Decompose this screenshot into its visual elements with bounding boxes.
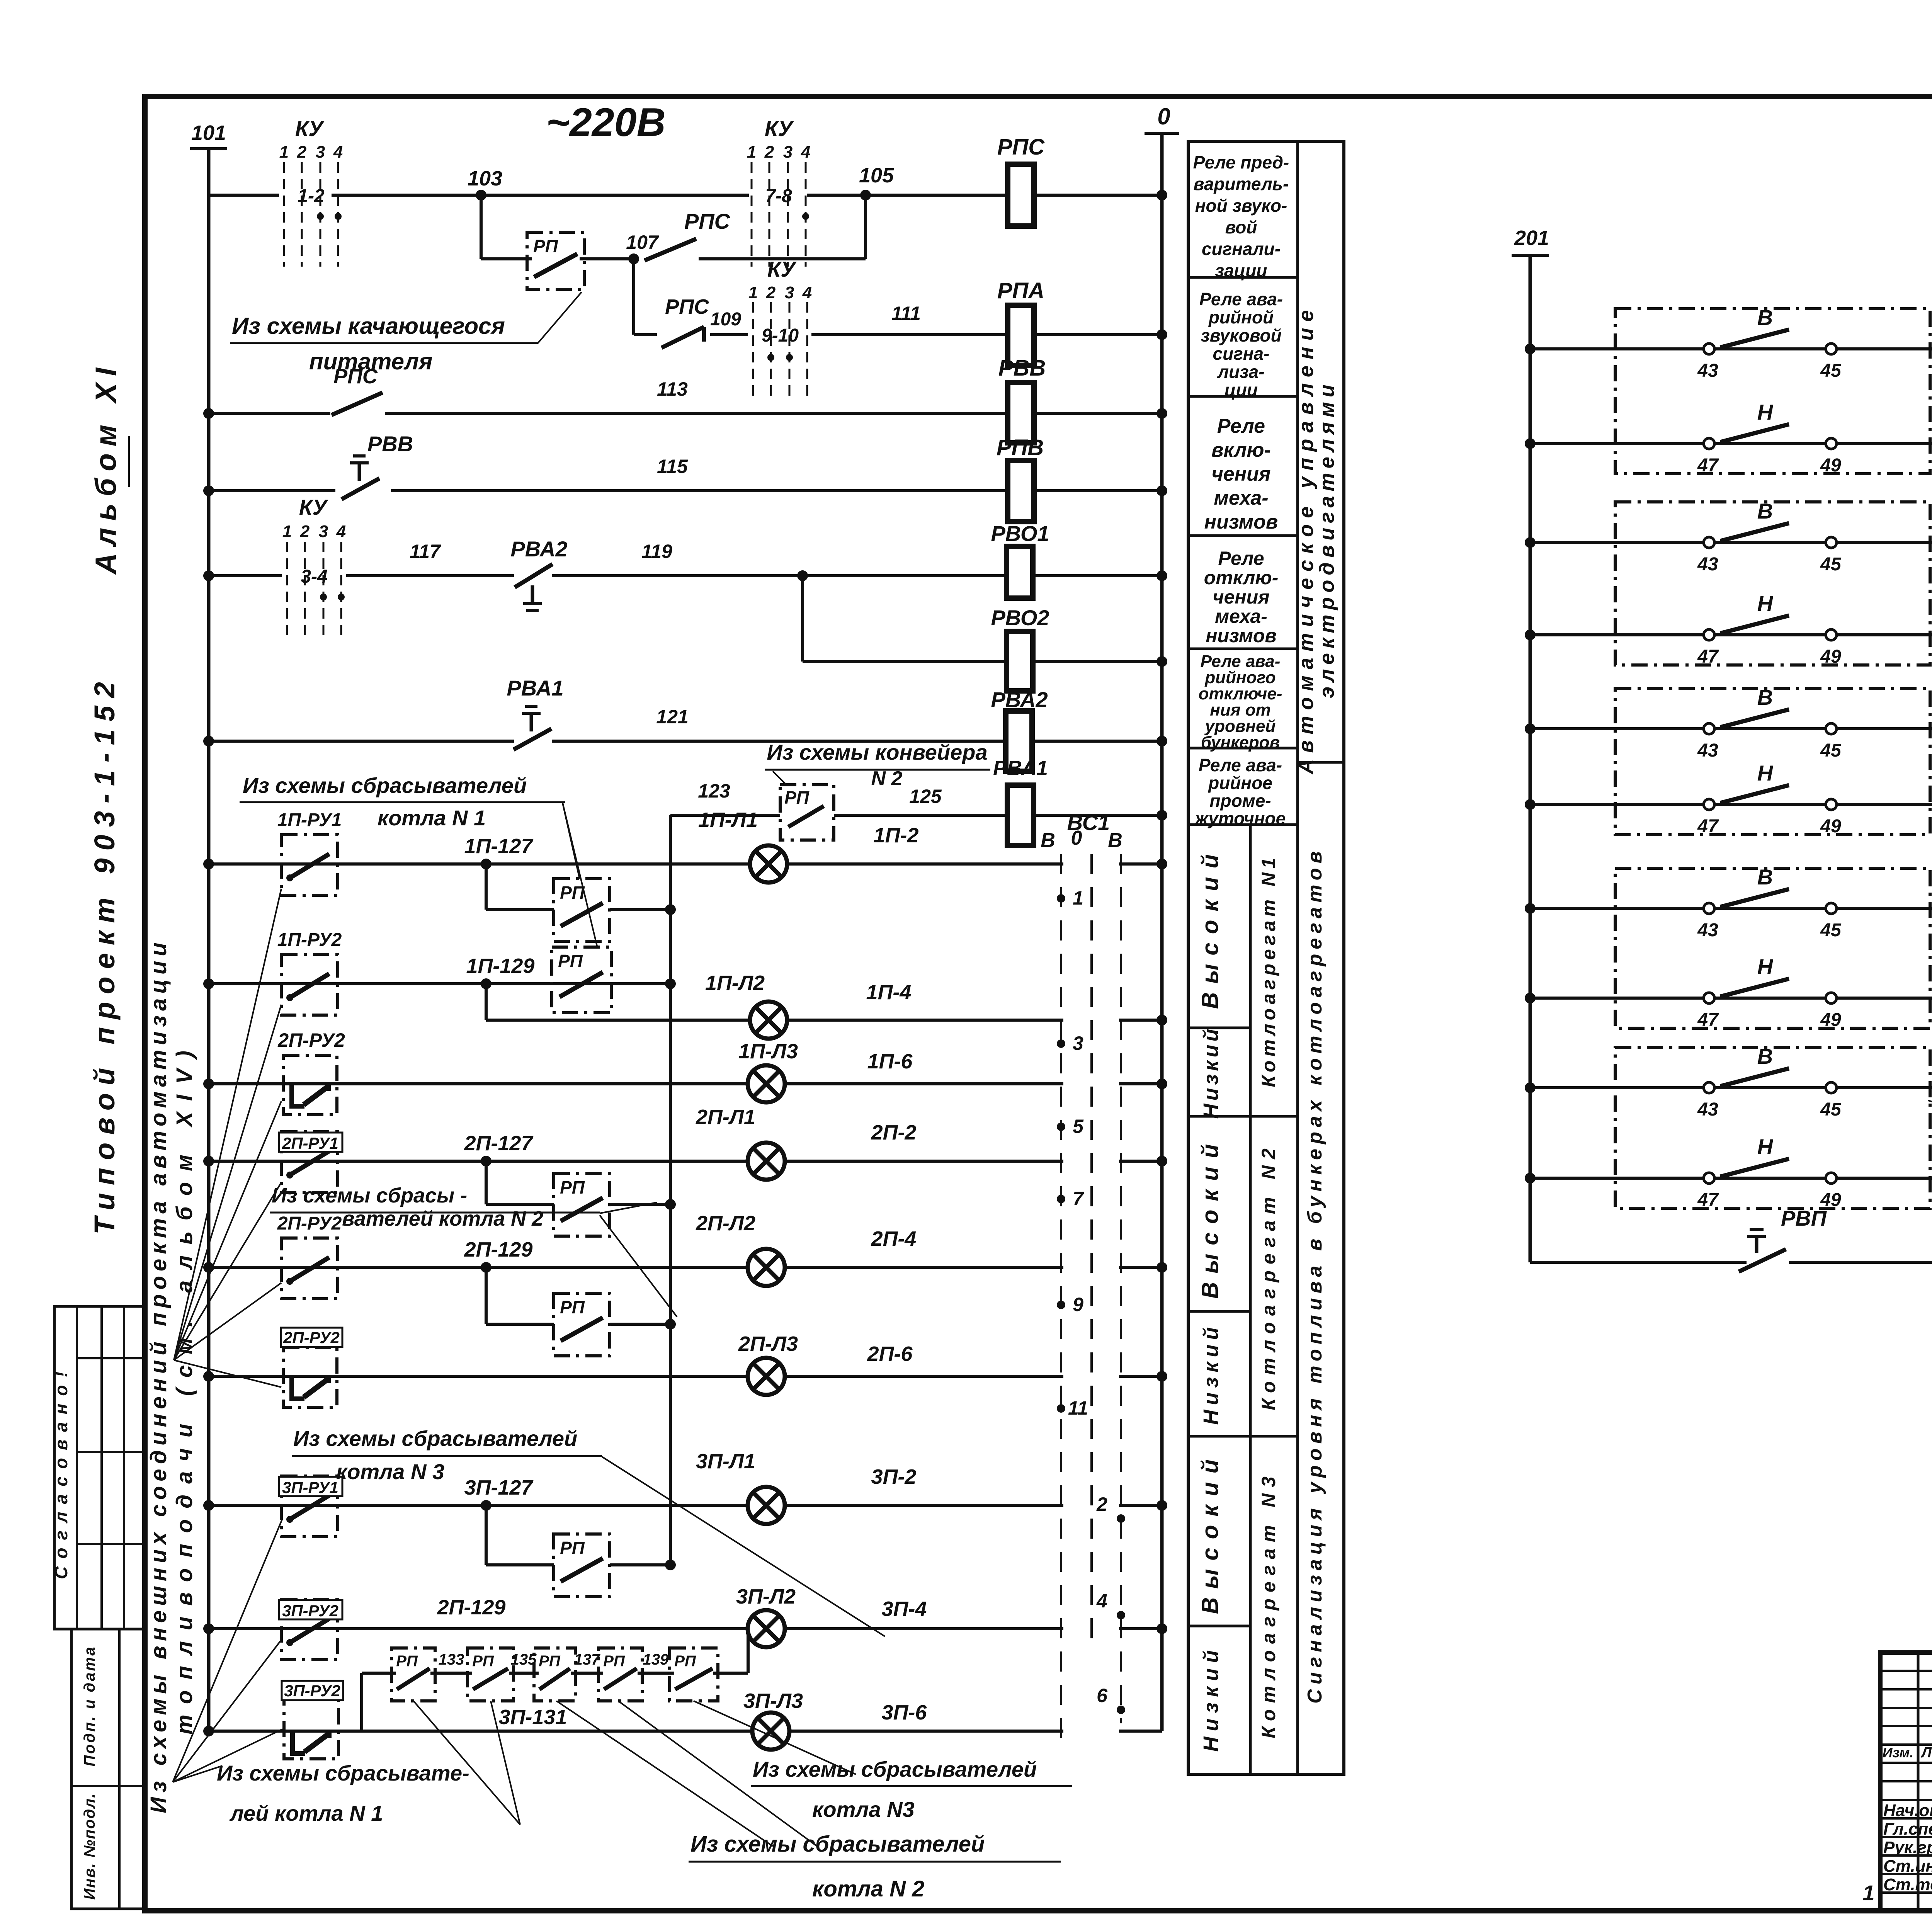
svg-text:РВП: РВП	[1781, 1206, 1827, 1230]
svg-text:3: 3	[316, 143, 325, 162]
svg-text:Высокий: Высокий	[1197, 846, 1223, 1009]
svg-text:РП: РП	[674, 1653, 696, 1670]
svg-text:43: 43	[1697, 740, 1718, 761]
svg-text:45: 45	[1820, 740, 1842, 761]
svg-text:47: 47	[1697, 646, 1719, 667]
svg-text:РПС: РПС	[997, 134, 1045, 160]
svg-text:11: 11	[1068, 1397, 1088, 1419]
svg-text:РВВ: РВВ	[367, 432, 413, 456]
svg-text:Из схемы сбрасывате-: Из схемы сбрасывате-	[217, 1761, 469, 1785]
svg-text:Низкий: Низкий	[1199, 1645, 1223, 1752]
svg-text:сигна-: сигна-	[1213, 344, 1270, 364]
svg-text:Ст.техн.: Ст.техн.	[1883, 1875, 1932, 1894]
svg-text:3П-2: 3П-2	[871, 1465, 917, 1488]
svg-text:Лист: Лист	[1920, 1745, 1932, 1761]
svg-text:Из схемы сбрасы -: Из схемы сбрасы -	[272, 1184, 467, 1207]
svg-text:3П-РУ2: 3П-РУ2	[284, 1682, 340, 1700]
svg-text:2П-Л1: 2П-Л1	[696, 1105, 755, 1129]
svg-text:4: 4	[801, 143, 810, 162]
svg-text:1П-Л1: 1П-Л1	[698, 808, 758, 832]
svg-text:Н: Н	[1757, 400, 1774, 424]
svg-text:В: В	[1757, 305, 1773, 330]
svg-text:РВО1: РВО1	[991, 521, 1049, 546]
svg-text:1: 1	[747, 143, 756, 162]
svg-text:1П-127: 1П-127	[464, 835, 534, 858]
svg-text:2: 2	[766, 283, 776, 302]
svg-text:ции: ции	[1225, 380, 1258, 400]
svg-text:Н: Н	[1757, 1134, 1774, 1159]
svg-text:2П-127: 2П-127	[464, 1132, 534, 1155]
svg-text:бункеров: бункеров	[1201, 733, 1280, 752]
svg-text:Котлоагрегат N3: Котлоагрегат N3	[1258, 1470, 1279, 1738]
svg-text:43: 43	[1697, 1099, 1718, 1120]
svg-text:топливоподачи (см. альбом XIV): топливоподачи (см. альбом XIV)	[172, 1040, 197, 1735]
svg-text:вой: вой	[1225, 217, 1257, 237]
svg-text:3: 3	[319, 522, 328, 541]
svg-text:сигнали-: сигнали-	[1202, 239, 1281, 259]
svg-text:7-8: 7-8	[765, 186, 792, 206]
svg-text:Сигнализация уровня топлива в: Сигнализация уровня топлива в бункерах к…	[1304, 847, 1326, 1704]
svg-text:49: 49	[1820, 455, 1841, 476]
svg-text:РП: РП	[560, 1177, 585, 1197]
svg-text:107: 107	[626, 231, 659, 253]
svg-text:3П-131: 3П-131	[499, 1706, 567, 1729]
svg-text:жуточное: жуточное	[1194, 808, 1286, 828]
svg-text:вклю-: вклю-	[1211, 439, 1271, 461]
svg-text:2П-Л3: 2П-Л3	[738, 1332, 798, 1355]
svg-text:2: 2	[297, 143, 307, 162]
svg-text:3П-РУ1: 3П-РУ1	[282, 1478, 338, 1497]
svg-text:49: 49	[1820, 816, 1841, 837]
svg-text:Ст.инж.: Ст.инж.	[1883, 1857, 1932, 1876]
svg-text:1: 1	[279, 143, 289, 162]
svg-text:3: 3	[783, 143, 793, 162]
svg-text:Из схемы сбрасывателей: Из схемы сбрасывателей	[753, 1757, 1037, 1781]
svg-text:В: В	[1757, 865, 1773, 889]
svg-text:Реле ава-: Реле ава-	[1199, 289, 1283, 309]
svg-text:7: 7	[1073, 1188, 1084, 1209]
svg-text:135: 135	[511, 1651, 537, 1668]
svg-text:РП: РП	[533, 236, 558, 256]
svg-text:1П-4: 1П-4	[866, 981, 912, 1004]
svg-text:РП: РП	[396, 1653, 418, 1670]
svg-text:варитель-: варитель-	[1194, 174, 1289, 194]
svg-text:45: 45	[1820, 1099, 1842, 1120]
svg-text:139: 139	[643, 1651, 669, 1668]
svg-text:121: 121	[656, 706, 688, 728]
svg-text:КУ: КУ	[295, 116, 325, 141]
svg-text:котла N 2: котла N 2	[812, 1876, 924, 1901]
svg-text:1П-129: 1П-129	[466, 954, 535, 978]
svg-text:1П-Л3: 1П-Л3	[738, 1040, 798, 1063]
svg-text:Рук.гр.: Рук.гр.	[1883, 1838, 1932, 1857]
svg-text:РП: РП	[558, 951, 583, 971]
svg-text:3-4: 3-4	[301, 566, 327, 587]
svg-text:В: В	[1757, 685, 1773, 709]
svg-text:2П-129: 2П-129	[464, 1238, 533, 1261]
svg-text:3П-Л2: 3П-Л2	[736, 1585, 796, 1608]
svg-text:47: 47	[1697, 816, 1719, 837]
svg-text:чения: чения	[1213, 586, 1269, 608]
svg-text:Инв. №подл.: Инв. №подл.	[81, 1793, 98, 1900]
svg-text:РВА2: РВА2	[991, 687, 1048, 712]
svg-text:137: 137	[574, 1651, 600, 1668]
svg-text:электродвигателями: электродвигателями	[1315, 380, 1338, 698]
svg-text:РП: РП	[784, 787, 810, 808]
svg-text:проме-: проме-	[1209, 791, 1271, 811]
svg-text:3: 3	[785, 283, 794, 302]
svg-text:2П-129: 2П-129	[437, 1596, 506, 1619]
svg-text:109: 109	[710, 309, 741, 330]
svg-text:105: 105	[859, 164, 894, 187]
svg-text:Высокий: Высокий	[1197, 1451, 1223, 1614]
svg-text:3П-Л1: 3П-Л1	[696, 1450, 755, 1473]
svg-text:3П-4: 3П-4	[882, 1597, 927, 1621]
svg-text:9-10: 9-10	[762, 325, 799, 346]
svg-text:Из схемы конвейера: Из схемы конвейера	[767, 740, 987, 764]
svg-text:1: 1	[748, 283, 758, 302]
svg-text:N 2: N 2	[871, 767, 903, 790]
svg-text:КУ: КУ	[765, 116, 794, 141]
svg-text:123: 123	[698, 780, 730, 802]
svg-text:РПС: РПС	[665, 295, 709, 318]
svg-text:2П-РУ1: 2П-РУ1	[282, 1134, 338, 1152]
svg-text:Из схемы качающегося: Из схемы качающегося	[232, 313, 505, 339]
svg-text:1: 1	[282, 522, 292, 541]
svg-text:Реле: Реле	[1217, 415, 1265, 437]
svg-text:меха-: меха-	[1214, 487, 1268, 509]
svg-text:2П-РУ2: 2П-РУ2	[277, 1029, 345, 1051]
svg-text:РВА1: РВА1	[993, 757, 1048, 780]
svg-text:зации: зации	[1215, 260, 1267, 281]
svg-text:Подп. и дата: Подп. и дата	[81, 1646, 98, 1767]
svg-text:меха-: меха-	[1215, 605, 1267, 627]
svg-text:4: 4	[333, 143, 343, 162]
svg-text:отклю-: отклю-	[1204, 567, 1279, 588]
svg-text:125: 125	[909, 786, 942, 807]
svg-text:3П-РУ2: 3П-РУ2	[282, 1602, 338, 1620]
svg-text:Высокий: Высокий	[1197, 1136, 1223, 1299]
svg-text:1П-6: 1П-6	[867, 1050, 913, 1073]
svg-text:3П-127: 3П-127	[464, 1476, 534, 1499]
svg-text:В: В	[1757, 499, 1773, 523]
svg-text:113: 113	[657, 378, 688, 400]
svg-text:низмов: низмов	[1206, 625, 1276, 646]
svg-text:Котлоагрегат N2: Котлоагрегат N2	[1258, 1142, 1279, 1410]
svg-text:Котлоагрегат N1: Котлоагрегат N1	[1258, 854, 1279, 1087]
svg-text:45: 45	[1820, 920, 1842, 940]
svg-text:3: 3	[1073, 1032, 1083, 1054]
svg-text:котла N 1: котла N 1	[378, 806, 486, 830]
svg-text:ной звуко-: ной звуко-	[1195, 196, 1287, 216]
svg-text:2П-РУ2: 2П-РУ2	[277, 1213, 342, 1234]
svg-text:КУ: КУ	[299, 495, 328, 519]
svg-text:3П-6: 3П-6	[882, 1701, 927, 1724]
svg-text:2П-4: 2П-4	[871, 1227, 917, 1250]
svg-text:47: 47	[1697, 455, 1719, 476]
svg-text:Типовой проект 903-1-152: Типовой проект 903-1-152	[88, 674, 121, 1235]
svg-text:117: 117	[410, 541, 441, 562]
svg-text:вателей котла N 2: вателей котла N 2	[342, 1207, 543, 1230]
svg-text:звуковой: звуковой	[1201, 325, 1281, 345]
svg-text:45: 45	[1820, 361, 1842, 381]
svg-text:2П-РУ2: 2П-РУ2	[283, 1328, 340, 1347]
svg-text:Н: Н	[1757, 591, 1774, 616]
svg-text:1П-2: 1П-2	[874, 824, 919, 847]
svg-text:Н: Н	[1757, 954, 1774, 979]
svg-text:2: 2	[1096, 1493, 1107, 1515]
svg-text:Автоматическое управление: Автоматическое управление	[1294, 304, 1318, 775]
svg-text:Из схемы внешних соединений пр: Из схемы внешних соединений проекта авто…	[146, 938, 171, 1813]
svg-text:5: 5	[1073, 1116, 1084, 1137]
svg-text:49: 49	[1820, 646, 1841, 667]
svg-text:Альбом XI: Альбом XI	[90, 361, 122, 575]
svg-text:В: В	[1108, 829, 1122, 852]
svg-text:РВА1: РВА1	[507, 676, 563, 700]
svg-text:Нач.отд.: Нач.отд.	[1883, 1801, 1932, 1820]
svg-text:43: 43	[1697, 554, 1718, 575]
svg-text:2П-6: 2П-6	[867, 1342, 913, 1366]
svg-text:1П-Л2: 1П-Л2	[705, 971, 765, 995]
svg-text:2П-Л2: 2П-Л2	[696, 1212, 755, 1235]
svg-text:2: 2	[300, 522, 310, 541]
svg-text:43: 43	[1697, 920, 1718, 940]
svg-text:0: 0	[1157, 104, 1170, 129]
svg-text:Низкий: Низкий	[1199, 1323, 1223, 1425]
svg-text:201: 201	[1514, 226, 1549, 250]
svg-text:низмов: низмов	[1204, 511, 1278, 533]
svg-text:119: 119	[641, 541, 672, 562]
svg-text:котла N3: котла N3	[812, 1797, 915, 1821]
svg-text:РПС: РПС	[333, 365, 378, 388]
svg-text:РВВ: РВВ	[998, 355, 1046, 381]
svg-text:РП: РП	[603, 1653, 625, 1670]
svg-text:3П-Л3: 3П-Л3	[743, 1689, 803, 1713]
svg-text:9: 9	[1073, 1294, 1083, 1315]
svg-text:РП: РП	[472, 1653, 494, 1670]
svg-text:45: 45	[1820, 554, 1842, 575]
svg-text:101: 101	[191, 121, 226, 145]
svg-text:Из схемы сбрасывателей: Из схемы сбрасывателей	[243, 773, 527, 798]
svg-text:2П-2: 2П-2	[871, 1121, 917, 1144]
svg-text:РП: РП	[560, 1538, 585, 1558]
svg-text:Низкий: Низкий	[1199, 1026, 1223, 1119]
svg-text:43: 43	[1697, 361, 1718, 381]
svg-text:Гл.спец.: Гл.спец.	[1883, 1820, 1932, 1838]
svg-text:рийной: рийной	[1208, 307, 1274, 327]
svg-text:1-2: 1-2	[298, 186, 325, 206]
svg-text:лиза-: лиза-	[1217, 362, 1264, 382]
svg-text:1П-РУ2: 1П-РУ2	[277, 930, 342, 950]
svg-text:РПА: РПА	[997, 278, 1044, 303]
svg-text:КУ: КУ	[767, 257, 797, 281]
svg-text:лей котла N 1: лей котла N 1	[229, 1801, 383, 1825]
svg-text:0: 0	[1071, 827, 1082, 849]
svg-text:РП: РП	[539, 1653, 561, 1670]
svg-text:2: 2	[764, 143, 774, 162]
svg-text:47: 47	[1697, 1010, 1719, 1030]
svg-text:Реле ава-: Реле ава-	[1199, 755, 1282, 775]
svg-text:4: 4	[1096, 1590, 1107, 1612]
svg-text:103: 103	[468, 167, 502, 190]
svg-text:рийное: рийное	[1207, 773, 1272, 793]
svg-text:РВО2: РВО2	[991, 605, 1049, 630]
svg-text:РПВ: РПВ	[997, 435, 1044, 460]
svg-text:Из схемы сбрасывателей: Из схемы сбрасывателей	[690, 1832, 985, 1857]
svg-text:Реле: Реле	[1218, 548, 1264, 569]
svg-text:133: 133	[439, 1651, 464, 1668]
svg-text:47: 47	[1697, 1190, 1719, 1210]
svg-text:111: 111	[891, 303, 921, 324]
svg-text:4: 4	[802, 283, 812, 302]
svg-text:6: 6	[1097, 1685, 1108, 1706]
svg-text:~220В: ~220В	[546, 100, 665, 145]
svg-text:РП: РП	[560, 883, 585, 903]
svg-text:Изм.: Изм.	[1883, 1745, 1913, 1760]
svg-text:РП: РП	[560, 1297, 585, 1317]
svg-text:В: В	[1041, 829, 1055, 852]
svg-text:115: 115	[657, 456, 688, 477]
svg-text:Реле пред-: Реле пред-	[1193, 152, 1289, 172]
svg-text:Из схемы сбрасывателей: Из схемы сбрасывателей	[293, 1426, 577, 1451]
svg-text:котла N 3: котла N 3	[336, 1459, 444, 1484]
svg-text:4: 4	[336, 522, 346, 541]
svg-text:чения: чения	[1211, 463, 1270, 485]
svg-text:1: 1	[1073, 887, 1083, 909]
svg-text:РПС: РПС	[684, 209, 731, 233]
svg-text:В: В	[1757, 1044, 1773, 1068]
svg-text:1П-РУ1: 1П-РУ1	[277, 810, 342, 830]
svg-text:Н: Н	[1757, 761, 1774, 785]
svg-text:49: 49	[1820, 1010, 1841, 1030]
svg-text:1: 1	[1862, 1881, 1874, 1905]
svg-text:РВА2: РВА2	[510, 537, 567, 561]
